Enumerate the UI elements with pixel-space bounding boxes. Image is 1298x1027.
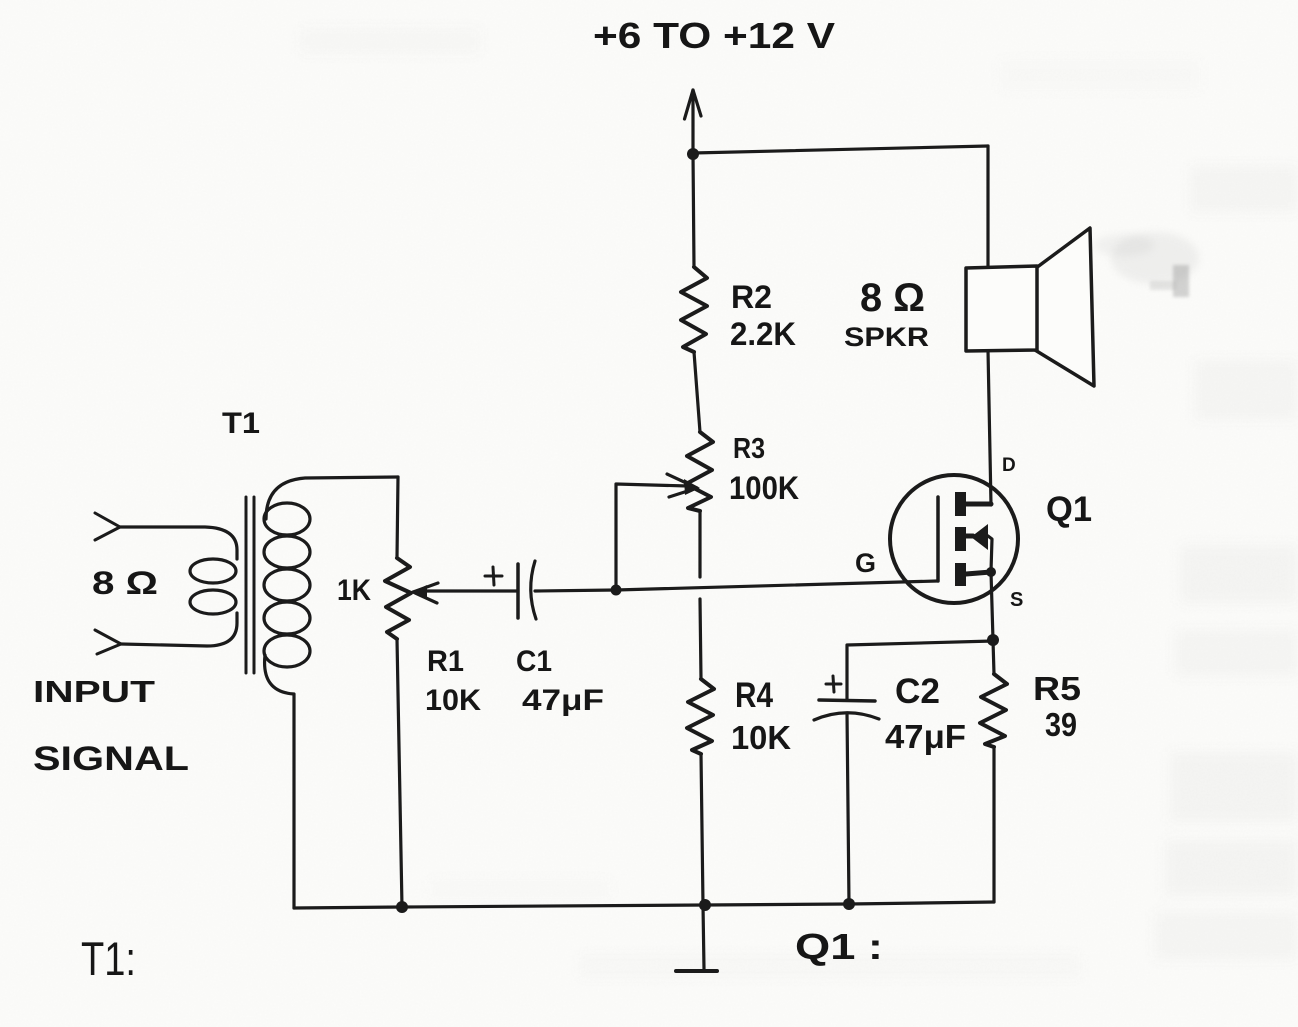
svg-text:C1: C1 (516, 645, 552, 678)
svg-text:+6 TO +12 V: +6 TO +12 V (593, 15, 835, 56)
svg-text:8 Ω: 8 Ω (860, 276, 925, 320)
svg-text:47μF: 47μF (885, 718, 966, 755)
svg-text:C2: C2 (895, 672, 940, 711)
svg-text:1K: 1K (337, 574, 371, 607)
svg-text:R5: R5 (1033, 670, 1081, 707)
svg-text:Q1: Q1 (1046, 490, 1092, 529)
svg-text:100K: 100K (729, 470, 799, 506)
svg-text:T1: T1 (222, 407, 260, 440)
svg-text:10K: 10K (425, 684, 481, 717)
svg-text:R1: R1 (427, 645, 464, 678)
svg-text:39: 39 (1045, 706, 1077, 743)
svg-text:R4: R4 (735, 676, 773, 715)
svg-text:S: S (1010, 589, 1023, 611)
svg-text:SIGNAL: SIGNAL (33, 740, 189, 778)
svg-text:D: D (1002, 455, 1016, 476)
svg-text:R3: R3 (733, 433, 765, 465)
svg-text:8 Ω: 8 Ω (92, 565, 158, 601)
svg-text:R2: R2 (731, 279, 772, 315)
svg-text:10K: 10K (731, 719, 791, 756)
svg-text:Q1 :: Q1 : (795, 926, 883, 967)
svg-text:2.2K: 2.2K (730, 316, 796, 352)
svg-text:T1:: T1: (81, 932, 136, 985)
svg-text:G: G (855, 548, 876, 578)
svg-text:SPKR: SPKR (844, 322, 929, 352)
svg-text:47μF: 47μF (522, 684, 604, 717)
svg-text:INPUT: INPUT (33, 674, 155, 709)
